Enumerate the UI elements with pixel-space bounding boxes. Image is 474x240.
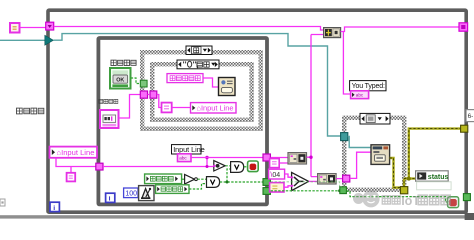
space string constant (270, 183, 284, 192)
wire: teal network refnum across top (53, 34, 340, 136)
Empty String? function (triangle) (213, 161, 225, 171)
svg-text:6-: 6- (468, 113, 474, 120)
green wires to case3 bottom tunnel (271, 182, 340, 191)
svg-text:i: i (109, 196, 111, 203)
concatenate triangle function (291, 172, 309, 190)
TCP write subVI icon (top) (324, 28, 341, 38)
green tunnel at case3 bottom-left (340, 187, 347, 194)
pink tunnel on "0" case left border (150, 91, 157, 98)
prompt-user dialog icon (219, 78, 236, 96)
case structure "0",default frame (152, 64, 251, 120)
命令发送 string control terminal icon (100, 110, 119, 128)
green tunnel loop2 right border (stop condition) (263, 179, 270, 186)
svg-text:100: 100 (125, 191, 137, 198)
outer loop iteration terminal [i] (50, 202, 59, 212)
loop2 conditional stop terminal (248, 161, 259, 172)
loop2 iteration terminal [i] (106, 193, 115, 202)
svg-text:i: i (53, 205, 55, 212)
status boolean indicator (416, 171, 449, 181)
label box: 请选择命令 (pink free label) (167, 74, 203, 83)
svg-text:Input Line: Input Line (173, 145, 205, 154)
numeric constant 100 (124, 188, 138, 198)
green tunnel loop2 right border (cancel) (263, 188, 270, 195)
wire: label to dialog icon (203, 78, 219, 87)
wire: tunnel to Empty-String? function (pink, y=166.5) (103, 166, 214, 168)
left pink tunnel on outer loop border (46, 22, 54, 30)
local variable: 开始监听 (green) (145, 174, 182, 184)
wire OR1 to stop terminal (244, 166, 248, 168)
teal wire from left edge (0, 39, 45, 41)
case "0" selector label (177, 60, 219, 69)
bottom window edge band (0, 215, 474, 218)
outer loop conditional stop terminal (448, 197, 459, 208)
free label: You Typed: (350, 81, 386, 91)
wire pink inside case3 to TCP node (350, 152, 371, 178)
junction dots (205, 156, 208, 159)
TCP node inside case3 (371, 145, 390, 165)
svg-text:\04: \04 (270, 172, 280, 179)
OR gate 1 (231, 162, 244, 173)
wires constants into triangle function (284, 174, 292, 187)
svg-text:⌂Input Line: ⌂Input Line (197, 104, 234, 113)
svg-text:abc: abc (179, 156, 187, 161)
teal shift-register / tunnel triangle on left border (45, 35, 54, 45)
small pink string constant inside case 0 (162, 103, 172, 113)
pink tunnel on loop2 left border (96, 163, 103, 170)
wire 取消按钮 to OR2 (189, 184, 207, 189)
wire: tunnel to string constant inside case 0 (148, 95, 162, 108)
svg-text:OK: OK (116, 78, 124, 84)
wire: constant to property node (172, 107, 191, 109)
olive tunnel at case3 bottom-right corner (400, 187, 407, 194)
label: 发送循环 (send loop) (17, 108, 44, 114)
outer while loop (send loop) border (48, 10, 466, 212)
OR gate 2 (207, 177, 220, 188)
string constant \04 (269, 169, 285, 179)
green tunnel on outer loop right border (463, 194, 470, 201)
mini pink constant under wire (67, 173, 76, 182)
wire triangle to OR1 (225, 165, 230, 167)
wire node2 out to case3 tunnel (pink) (336, 178, 342, 180)
wait ms metronome icon (139, 186, 154, 201)
case structure TRUE frame (142, 52, 261, 129)
svg-text:⌂Input Line: ⌂Input Line (57, 148, 95, 157)
wire: long pink string wire along top (54, 27, 324, 31)
wire: OK button to case selector terminal (green) (131, 78, 141, 84)
green wire to outer loop conditional terminal (347, 191, 448, 202)
wire: 命令发送 to case tunnel (pink) (119, 95, 141, 119)
error wire (olive) from TCP node to corner tunnel and status (390, 158, 416, 188)
error wire branch up to loop border (dashed olive) (407, 129, 461, 181)
wire: branch down to You Typed terminal (343, 32, 350, 95)
You Typed string indicator terminal (351, 91, 369, 99)
pink tunnel on case3 left border (data in) (343, 175, 350, 182)
local variable: 取消按钮 (green) (156, 185, 189, 194)
case3 selector label (360, 113, 390, 124)
case structure 3 (receive case) frame (344, 118, 404, 190)
label: 命令发送 (command send) (99, 99, 118, 103)
svg-text:status: status (428, 174, 449, 181)
case selector ? terminal (140, 80, 147, 87)
faint outline box under status (417, 182, 452, 190)
wire: string constant to left tunnel (20, 27, 46, 29)
inner while loop (loop2) border (98, 38, 267, 204)
stub wire to mini constant (70, 167, 72, 174)
wire: pink Input Line string rightwards (271, 157, 288, 159)
Input Line string terminal (178, 154, 192, 162)
small icon at right border (cut by image edge) (466, 110, 474, 122)
wire node1 out up to TCP-write and down to node2 (pink riser x=311) (307, 35, 324, 177)
pink tunnel on TRUE case left border (140, 91, 147, 98)
property node: Input Line (191, 103, 237, 113)
wire: terminal to loop2 right tunnel (pink y=157.5) (191, 157, 263, 159)
branch up to OR1 (227, 169, 231, 182)
pink tunnel on outer loop right border (459, 23, 468, 31)
wire: TCP write out to right tunnel (pink) (341, 27, 459, 32)
wire triangle out to node2 (309, 180, 318, 182)
string function node1 (288, 153, 307, 164)
watermark: 玩转IoT物联网 with logo (353, 190, 450, 208)
string constant icon A (top-left, outside loop) (10, 23, 20, 33)
svg-text:You Typed:: You Typed: (352, 83, 385, 90)
local variable: Input Line (left of loop2) (50, 147, 98, 158)
free label: Input Line (172, 145, 205, 154)
pink tunnel loop2 right border (Input Line out) (263, 154, 270, 161)
olive junction square on outer loop right border (461, 125, 468, 132)
NOT gate (185, 174, 198, 184)
svg-text:abc: abc (356, 93, 364, 98)
OK button boolean terminal icon (110, 68, 131, 89)
string function node2 (318, 174, 337, 184)
wire NOT to OR2 (197, 178, 206, 180)
wire: local var down and right to loop2 tunnel (pink) (56, 158, 96, 167)
label: 确定按钮 (OK button) (111, 60, 136, 65)
wire mini constant to concat node (279, 162, 288, 164)
wire teal inside case3 to TCP node (348, 137, 371, 148)
teal tunnel on case3 left border (341, 133, 348, 141)
mini pink constant (CR) (270, 159, 280, 168)
wire to NOT gate (182, 178, 185, 180)
case TRUE selector label (186, 46, 212, 55)
wire OR2 to loop2 right tunnel (green) (220, 181, 263, 183)
tiny gray glyphs at left edge bottom (0, 199, 5, 206)
wire: riser x=207 (206, 158, 208, 167)
